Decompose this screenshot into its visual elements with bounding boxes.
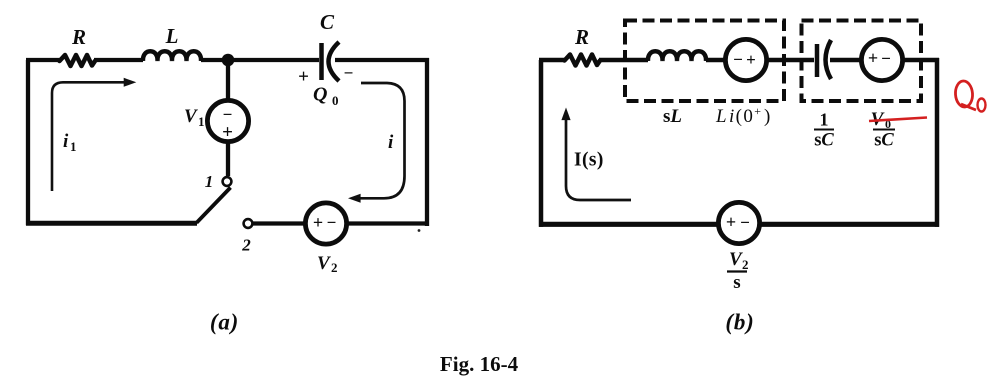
svg-text:−: − [733,50,743,69]
wire left side (b) [539,60,544,227]
wire bottom-left (a) [26,221,197,226]
svg-text:V: V [729,249,743,270]
resistor R (b) [565,55,601,66]
wire top-left (b) to R [539,58,565,63]
red strike line [869,118,927,122]
wire node to V1 top [226,60,230,100]
switch blade [197,188,231,223]
svg-text:−: − [740,213,750,232]
svg-text:R: R [71,25,86,49]
switch contact 1 [223,177,232,186]
svg-text:+: + [222,122,233,143]
svg-text:C: C [320,10,335,34]
svg-text:2: 2 [742,257,749,272]
source Li(0+) [725,39,766,80]
wire bottom (b) right of V2/s source [759,222,939,227]
svg-text:sC: sC [874,131,894,151]
inductor sL [648,51,706,61]
dashed box sL / Li(0+) [625,21,784,102]
wire inductor to source Li(0+) [706,58,726,63]
red annotation Q0 [955,80,986,111]
svg-text:V: V [317,253,331,274]
svg-text:+: + [868,48,878,68]
svg-text:i: i [63,131,69,152]
wire R to inductor sL [599,58,648,63]
svg-text:Fig. 16-4: Fig. 16-4 [440,352,519,376]
wire capacitor to top-right corner and down [335,58,429,226]
svg-text:(b): (b) [725,310,754,335]
current arrow I(s) [566,119,631,200]
dashed box 1/sC / V0-sC [802,21,922,102]
svg-text:V: V [184,106,198,127]
current arrow i1 [52,82,125,191]
svg-text:Q: Q [313,84,327,106]
svg-text:+: + [298,67,309,88]
svg-text:sC: sC [814,131,834,151]
node A junction dot [222,54,235,67]
svg-text:+: + [746,50,756,69]
source V1 [207,100,248,141]
wire top-left to R [26,58,61,62]
speck [418,229,421,232]
capacitor 1/sC plates [817,40,831,79]
svg-text:−: − [881,49,891,68]
wire contact 2 to V2 [253,221,305,225]
wire node to capacitor C [228,58,319,62]
svg-text:1: 1 [70,139,77,154]
svg-text:0: 0 [332,93,339,108]
wire V2 right side to right wire [347,221,429,225]
svg-text:+: + [313,213,323,233]
wire source V0/sC to top-right corner and down [902,58,939,227]
wire left side (a) [26,60,30,225]
wire source Li(0+) to capacitor 1/sC [766,58,814,63]
source V2/s [718,202,759,243]
svg-text:2: 2 [331,260,338,275]
svg-text:−: − [344,64,354,83]
svg-text:L: L [165,24,179,48]
resistor R [60,55,96,66]
svg-text:1: 1 [205,172,214,191]
wire R to L [94,58,143,62]
current arrow i [360,83,405,198]
svg-text:+: + [726,212,736,232]
svg-text:2: 2 [241,236,251,255]
wire capacitor to source V0/sC [830,58,862,63]
inductor L [143,51,201,61]
capacitor C plates [322,42,340,81]
wire L to node [201,58,228,62]
svg-text:−: − [327,213,337,232]
source V2 [305,203,346,244]
svg-text:1: 1 [198,114,205,129]
switch contact 2 [244,219,253,228]
svg-text:I(s): I(s) [574,150,604,171]
svg-text:sL: sL [663,106,682,127]
svg-text:R: R [574,25,589,49]
svg-text:i: i [388,132,394,153]
svg-text:1: 1 [820,110,829,130]
svg-text:Li(0+): Li(0+) [715,104,772,127]
svg-text:(a): (a) [210,310,239,335]
svg-text:s: s [733,272,740,293]
wire V1 bottom to contact 1 [226,142,230,176]
wire bottom (b) left of V2/s source [539,222,719,227]
source V0/sC [861,39,902,80]
